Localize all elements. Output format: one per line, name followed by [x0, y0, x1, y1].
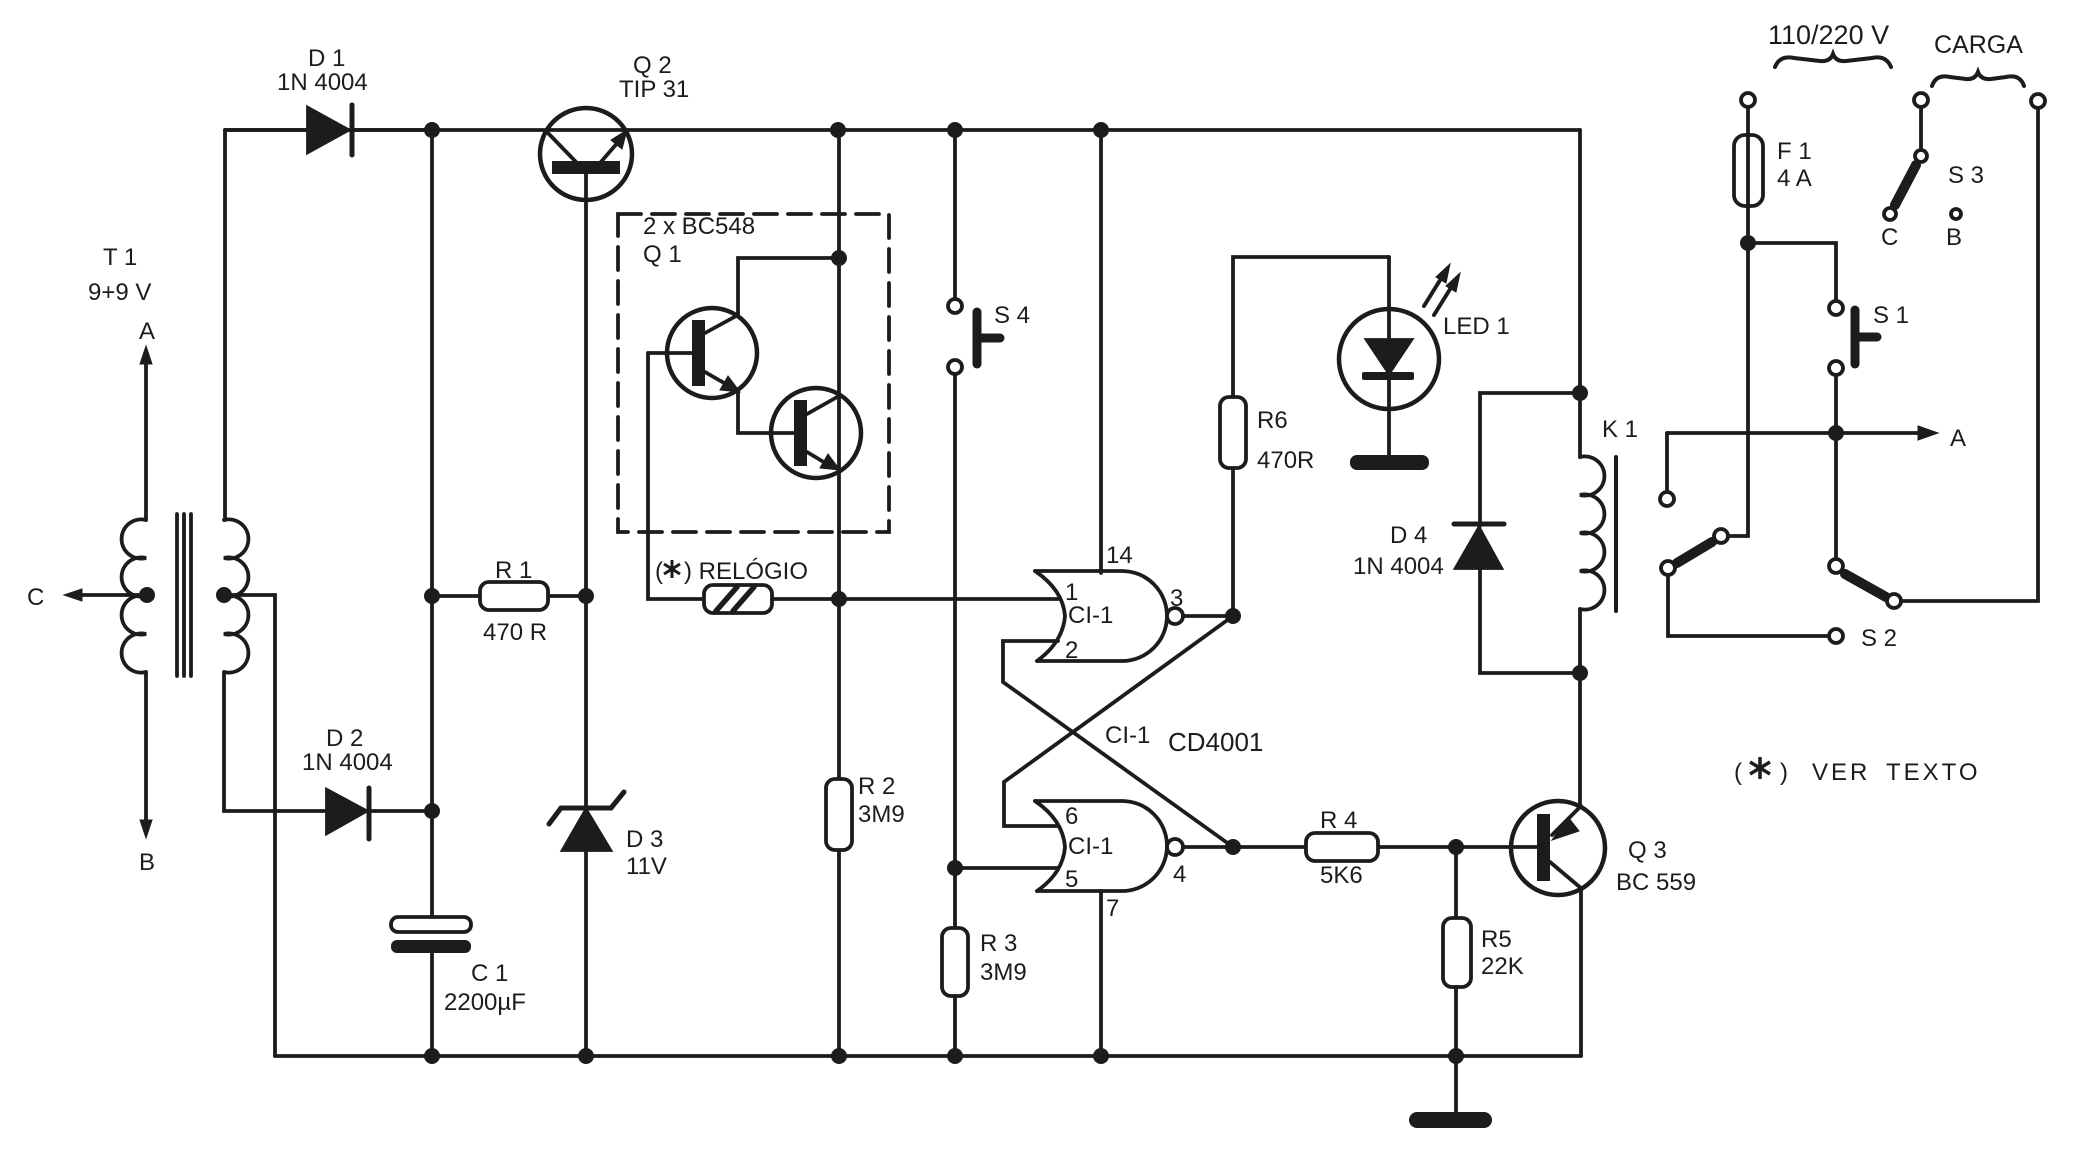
junction gate1 output node — [1225, 608, 1241, 624]
wire pin 14 — [1099, 130, 1103, 573]
svg-text:S 1: S 1 — [1873, 302, 1909, 329]
svg-text:F 1: F 1 — [1777, 138, 1812, 165]
svg-text:K 1: K 1 — [1602, 416, 1638, 443]
Q1 dashed box — [618, 214, 889, 532]
node A arrow right — [1667, 426, 1938, 440]
wire secondary bottom lead to D2 — [224, 672, 327, 811]
svg-text:A: A — [1950, 425, 1966, 452]
wire Q1a base drop to RELOGIO line — [648, 353, 704, 599]
zener D3 — [549, 792, 624, 1056]
wire gate1 input 2 cross-couple — [1003, 641, 1233, 847]
svg-text:11V: 11V — [626, 853, 667, 880]
capacitor C1 — [391, 917, 471, 953]
svg-text:C: C — [27, 584, 44, 611]
resistor R1 — [432, 582, 587, 610]
node C arrow (primary center tap) — [64, 589, 147, 601]
junction C1 bottom rail — [424, 1048, 440, 1064]
wire K1 to Q3 emitter — [1578, 673, 1582, 806]
svg-text:S 3: S 3 — [1948, 162, 1984, 189]
svg-text:9+9 V: 9+9 V — [88, 279, 151, 306]
svg-text:R5: R5 — [1481, 926, 1512, 953]
svg-text:C 1: C 1 — [471, 960, 508, 987]
junction R3 bottom rail — [947, 1048, 963, 1064]
svg-text:D 1: D 1 — [308, 45, 345, 72]
svg-text:14: 14 — [1106, 542, 1133, 569]
svg-text:1N 4004: 1N 4004 — [1353, 553, 1444, 580]
svg-text:2 x BC548: 2 x BC548 — [643, 213, 755, 240]
wire pin 7 — [1099, 891, 1103, 1056]
wire relay contact to S2 — [1668, 575, 1828, 636]
svg-text:4 A: 4 A — [1777, 165, 1812, 192]
svg-text:) RELÓGIO: ) RELÓGIO — [684, 558, 808, 585]
svg-text:B: B — [1946, 224, 1962, 251]
svg-text:3: 3 — [1170, 585, 1183, 612]
svg-text:TIP 31: TIP 31 — [619, 76, 689, 103]
svg-text:S 2: S 2 — [1861, 625, 1897, 652]
svg-text:A: A — [139, 318, 155, 345]
svg-text:470R: 470R — [1257, 447, 1314, 474]
svg-text:470 R: 470 R — [483, 619, 547, 646]
RELOGIO component — [704, 585, 1058, 613]
transistor Q3 — [1456, 801, 1605, 895]
junction Q1 collector rail — [830, 122, 846, 138]
wire gate2 input 5 — [955, 866, 1058, 870]
svg-text:CARGA: CARGA — [1934, 31, 2023, 59]
switch S2 — [1829, 108, 2038, 643]
wire top rail — [225, 128, 1580, 132]
junction S4 rail — [947, 122, 963, 138]
svg-text:1N 4004: 1N 4004 — [302, 749, 393, 776]
svg-text:CI-1: CI-1 — [1105, 722, 1150, 749]
junction pin14 rail — [1093, 122, 1109, 138]
svg-text:CI-1: CI-1 — [1068, 833, 1113, 860]
svg-text:5: 5 — [1065, 866, 1078, 893]
junction D2 cathode — [424, 803, 440, 819]
svg-text:R 3: R 3 — [980, 930, 1017, 957]
NOR gate U1a — [1035, 571, 1233, 661]
fuse F1 — [1728, 93, 1763, 536]
svg-text:CD4001: CD4001 — [1168, 727, 1263, 757]
wire Q1a collector to node — [738, 258, 838, 315]
svg-text:CI-1: CI-1 — [1068, 602, 1113, 629]
svg-text:BC 559: BC 559 — [1616, 869, 1696, 896]
relay coil K1 — [1580, 393, 1616, 673]
junction R4 R5 Q3 base node — [1448, 839, 1464, 855]
T1 left winding — [122, 519, 146, 672]
brace CARGA — [1932, 72, 2024, 86]
junction R2 bottom rail — [831, 1048, 847, 1064]
svg-text:D 2: D 2 — [326, 725, 363, 752]
transistor Q2 — [540, 108, 632, 806]
svg-text:R 1: R 1 — [495, 557, 532, 584]
junction D3 bottom rail — [578, 1048, 594, 1064]
terminal CARGA right — [2031, 94, 2045, 108]
svg-text:R 4: R 4 — [1320, 807, 1357, 834]
svg-text:R 2: R 2 — [858, 773, 895, 800]
svg-text:C: C — [1881, 224, 1898, 251]
svg-text:Q 2: Q 2 — [633, 52, 672, 79]
junction F1 output node — [1740, 235, 1756, 251]
resistor R3 — [942, 928, 968, 996]
junction Q1 collector node — [831, 250, 847, 266]
junction S1 A node — [1828, 425, 1844, 441]
wire +V vertical through Q1 box — [837, 130, 841, 779]
switch S4 — [948, 130, 1000, 928]
brace 110/220V — [1775, 54, 1891, 67]
svg-text:VER: VER — [1812, 759, 1870, 786]
T1 core — [177, 514, 191, 676]
svg-text:(: ( — [655, 558, 663, 585]
svg-text:Q 1: Q 1 — [643, 241, 682, 268]
svg-text:R6: R6 — [1257, 407, 1288, 434]
svg-text:5K6: 5K6 — [1320, 862, 1363, 889]
svg-text:D 4: D 4 — [1390, 522, 1427, 549]
wire bottom rail — [275, 1054, 1581, 1058]
transistor Q1a — [648, 308, 757, 398]
svg-text:7: 7 — [1106, 895, 1119, 922]
junction K1 top — [1572, 385, 1588, 401]
asterisk VER TEXTO — [1750, 757, 1770, 779]
svg-text:(: ( — [1734, 759, 1742, 786]
svg-text:2: 2 — [1065, 637, 1078, 664]
svg-text:6: 6 — [1065, 803, 1078, 830]
svg-text:3M9: 3M9 — [858, 801, 905, 828]
junction pin5 R3 node — [947, 860, 963, 876]
wire gate2 input 6 cross-couple — [1004, 616, 1233, 826]
wire left drop to transformer secondary top — [223, 130, 227, 520]
diode D1 — [225, 105, 432, 155]
svg-text:2200µF: 2200µF — [444, 989, 526, 1016]
junction pin7 bottom rail — [1093, 1048, 1109, 1064]
ground (LED1) — [1350, 455, 1429, 470]
asterisk RELOGIO — [664, 560, 680, 578]
junction R1 right — [578, 588, 594, 604]
resistor R4 — [1233, 833, 1456, 861]
junction T1 secondary tap — [216, 587, 232, 603]
wire C1 branch vertical — [430, 130, 434, 918]
svg-text:4: 4 — [1173, 861, 1186, 888]
ground (R5) — [1409, 1056, 1492, 1128]
NOR gate U1b — [1035, 801, 1233, 891]
junction D1 cathode node — [424, 122, 440, 138]
wire Q1a emitter to Q1b base — [738, 393, 794, 433]
switch S1 — [1748, 243, 1877, 433]
svg-text:TEXTO: TEXTO — [1886, 759, 1981, 786]
node B arrow (primary bottom lead) — [140, 672, 152, 838]
wire right drop rail to K1 — [1578, 130, 1582, 393]
T1 right winding — [224, 519, 248, 672]
junction gate2 output node — [1225, 839, 1241, 855]
junction RELOGIO node — [831, 591, 847, 607]
svg-text:110/220 V: 110/220 V — [1768, 20, 1889, 50]
wire Q3 collector to bottom rail — [1579, 890, 1583, 1056]
svg-text:LED 1: LED 1 — [1443, 313, 1510, 340]
svg-text:Q 3: Q 3 — [1628, 837, 1667, 864]
resistor R5 — [1443, 847, 1471, 1056]
resistor R6 — [1220, 257, 1389, 616]
svg-text:S 4: S 4 — [994, 302, 1030, 329]
diode D2 — [327, 788, 432, 839]
relay contact K1 — [1660, 433, 1728, 575]
wire secondary center tap to bottom rail — [224, 595, 275, 1056]
junction K1 bottom — [1572, 665, 1588, 681]
resistor R2 — [826, 779, 852, 850]
junction R5 ground rail — [1448, 1048, 1464, 1064]
junction T1 primary tap — [139, 587, 155, 603]
diode D4 — [1454, 393, 1580, 673]
node A arrow (primary top lead) — [140, 346, 152, 520]
svg-text:D 3: D 3 — [626, 826, 663, 853]
transformer T1 — [122, 514, 249, 676]
svg-text:3M9: 3M9 — [980, 959, 1027, 986]
LED1 — [1339, 257, 1460, 455]
svg-text:B: B — [139, 849, 155, 876]
svg-text:T 1: T 1 — [103, 244, 137, 271]
svg-text:1N 4004: 1N 4004 — [277, 69, 368, 96]
switch S3 — [1884, 93, 1961, 220]
svg-text:22K: 22K — [1481, 953, 1524, 980]
svg-text:): ) — [1780, 759, 1788, 786]
transistor Q1b — [771, 388, 861, 478]
junction R1 left — [424, 588, 440, 604]
